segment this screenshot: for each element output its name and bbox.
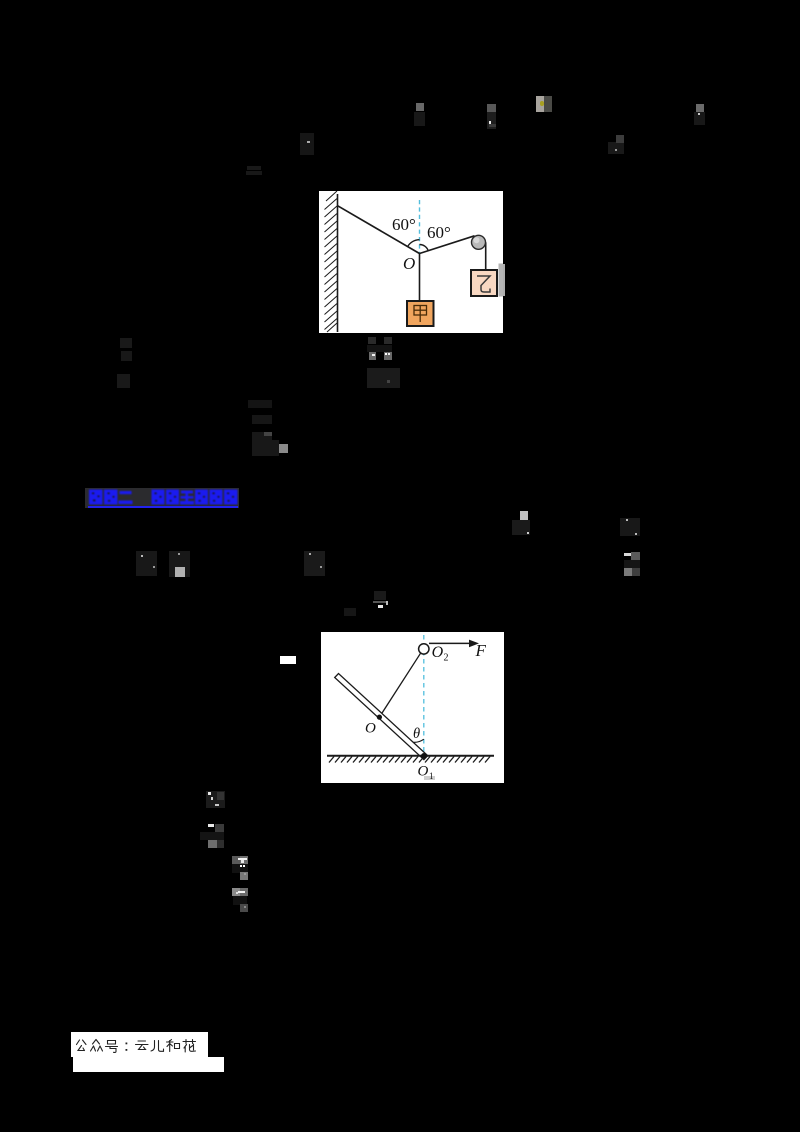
svg-text:60°: 60° (392, 215, 416, 234)
svg-text:O: O (403, 254, 415, 273)
svg-text:O: O (432, 644, 444, 661)
svg-text:1: 1 (429, 771, 434, 781)
svg-text:60°: 60° (427, 223, 451, 242)
svg-text:O: O (418, 764, 429, 780)
svg-text:F: F (475, 641, 487, 660)
svg-text:θ: θ (413, 726, 420, 742)
svg-text:O: O (365, 721, 376, 737)
svg-text:2: 2 (444, 653, 449, 664)
